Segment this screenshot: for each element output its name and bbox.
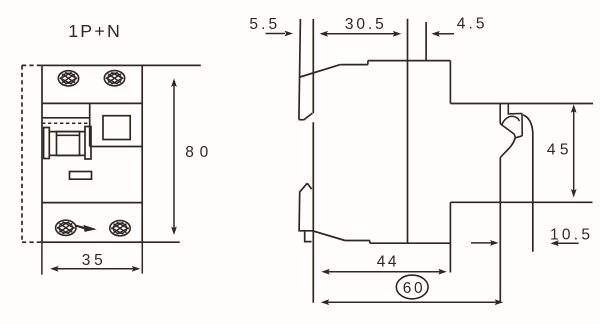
svg-text:1P+N: 1P+N xyxy=(68,21,120,41)
svg-text:10.5: 10.5 xyxy=(550,227,590,244)
svg-text:5.5: 5.5 xyxy=(249,16,277,33)
svg-text:30.5: 30.5 xyxy=(345,16,384,33)
svg-text:4.5: 4.5 xyxy=(457,16,485,33)
